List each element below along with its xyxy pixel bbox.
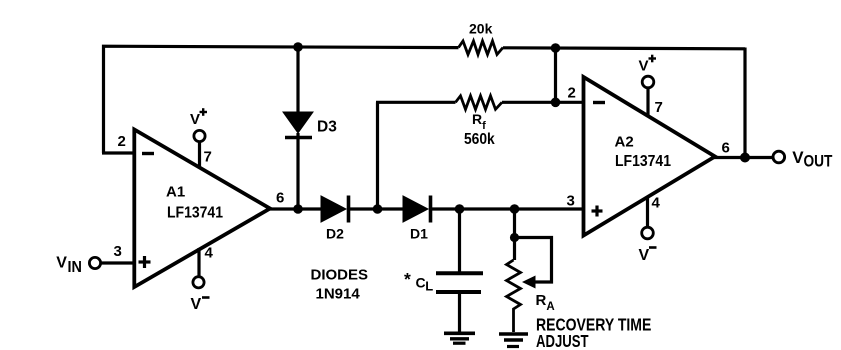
- capacitor CL: [436, 209, 483, 332]
- output terminal VOUT: [773, 151, 785, 163]
- plus sign A2: [592, 206, 603, 217]
- supply V- A2: [642, 197, 654, 239]
- resistor Rf 560k: [456, 96, 503, 110]
- node: Rf / A2 pin2 junction: [551, 98, 561, 108]
- svg-text:1N914: 1N914: [316, 286, 361, 303]
- svg-text:V: V: [639, 247, 650, 264]
- svg-text:V: V: [191, 296, 202, 313]
- svg-text:6: 6: [722, 140, 730, 157]
- node: CL junction: [455, 204, 465, 214]
- svg-text:IN: IN: [68, 258, 82, 276]
- wire: RA wiper loop: [515, 238, 552, 283]
- svg-text:7: 7: [204, 149, 212, 166]
- minus sign A2: [593, 101, 605, 104]
- node: top rail / D3 junction: [293, 42, 303, 52]
- wire: top rail right of 20k: [503, 48, 745, 49]
- svg-text:A1: A1: [166, 184, 185, 201]
- svg-text:2: 2: [568, 85, 576, 102]
- svg-text:*: *: [404, 269, 411, 289]
- node: RA wiper tap junction: [510, 233, 519, 242]
- supply V- A1: [193, 248, 204, 288]
- wire: A2 output: [713, 156, 773, 159]
- svg-text:560k: 560k: [464, 130, 495, 148]
- resistor 20k: [459, 41, 504, 55]
- node: A1 pin6 / D3 junction: [293, 204, 303, 214]
- ground (under CL): [444, 333, 475, 343]
- diode D2: [321, 196, 378, 223]
- svg-text:4: 4: [652, 195, 661, 212]
- input terminal VIN: [89, 257, 100, 268]
- plus sign A1: [139, 256, 151, 268]
- potentiometer RA: [507, 209, 521, 332]
- svg-text:V: V: [190, 111, 200, 128]
- svg-text:2: 2: [118, 133, 126, 150]
- svg-text:D2: D2: [326, 226, 344, 242]
- wire: A1 pin2 input: [102, 151, 134, 154]
- supply V+ A2: [642, 76, 654, 117]
- wire: Rf branch horizontal: [376, 101, 456, 104]
- svg-text:LF13741: LF13741: [615, 152, 671, 170]
- node: output junction: [740, 153, 750, 163]
- svg-text:V: V: [792, 148, 804, 167]
- svg-text:D3: D3: [317, 119, 337, 136]
- op-amp A1: [134, 130, 270, 288]
- svg-text:3: 3: [567, 193, 575, 210]
- svg-text:20k: 20k: [469, 21, 493, 37]
- minus sign A1: [142, 152, 154, 155]
- wire: Rf branch vertical from diode line: [376, 102, 379, 209]
- wiper arrow: [522, 276, 536, 289]
- svg-text:ADJUST: ADJUST: [536, 332, 589, 350]
- ground (under RA): [499, 334, 528, 347]
- svg-text:V: V: [56, 255, 67, 272]
- supply V+ A1: [194, 130, 205, 167]
- svg-text:OUT: OUT: [804, 152, 834, 170]
- node: top rail / 20k-Rf junction: [551, 43, 561, 53]
- svg-text:4: 4: [205, 245, 214, 262]
- svg-text:DIODES: DIODES: [311, 267, 369, 284]
- wire: Rf to A2 pin2: [502, 101, 583, 104]
- wire: junction 20k to Rf node: [554, 48, 557, 102]
- svg-text:LF13741: LF13741: [167, 204, 223, 222]
- wire: VIN to A1 pin3: [101, 261, 134, 264]
- diode D1: [378, 196, 584, 223]
- svg-text:D1: D1: [410, 226, 428, 242]
- op-amp A2: [584, 77, 716, 236]
- svg-text:7: 7: [655, 99, 663, 116]
- svg-text:C: C: [416, 275, 426, 291]
- node: RA junction: [510, 204, 520, 214]
- wire: right rail down to output: [743, 48, 746, 158]
- node: D2 / D1 / Rf junction: [373, 204, 383, 214]
- svg-text:L: L: [425, 279, 433, 294]
- wire: top feedback rail: [104, 46, 459, 153]
- svg-text:A2: A2: [615, 134, 634, 151]
- wire: A1 output to diode string: [268, 207, 322, 210]
- svg-text:V: V: [639, 58, 649, 75]
- svg-text:6: 6: [276, 190, 284, 207]
- diode D3: [283, 47, 313, 209]
- svg-text:3: 3: [114, 243, 122, 260]
